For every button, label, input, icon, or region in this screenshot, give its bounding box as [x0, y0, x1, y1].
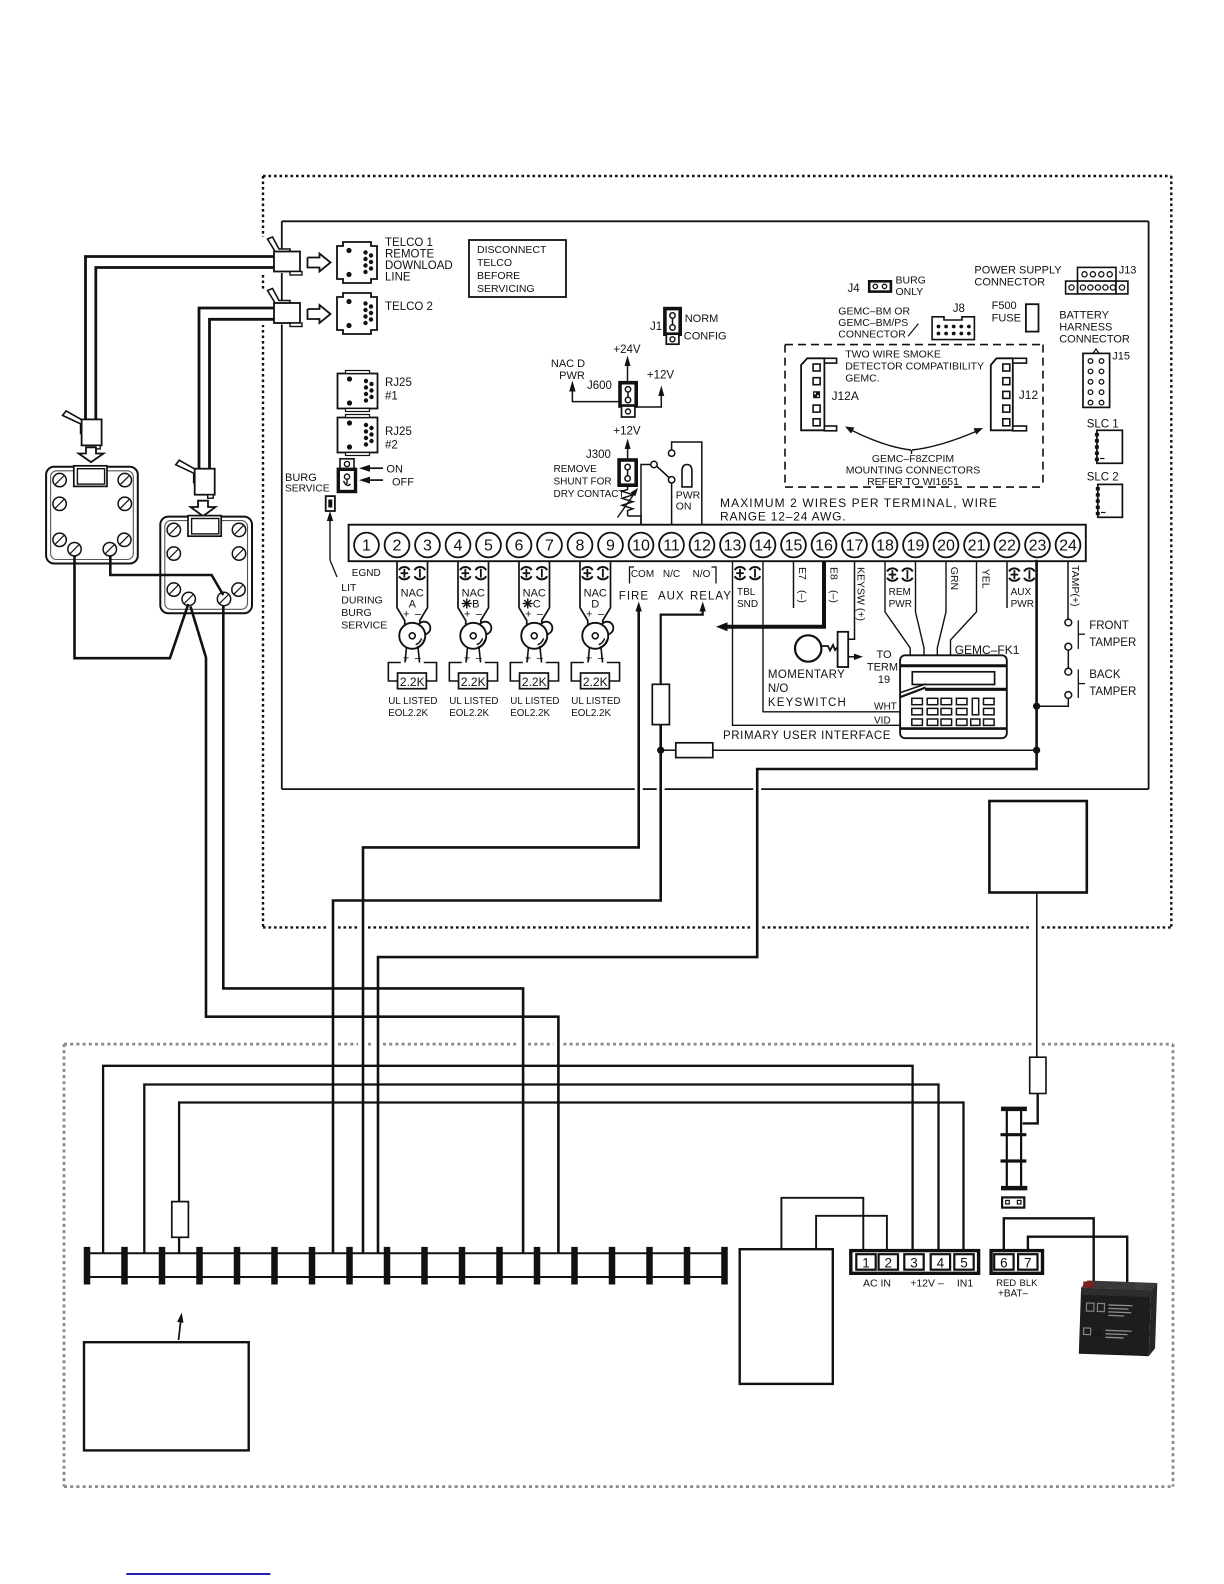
svg-text:J15: J15 [1112, 351, 1130, 363]
svg-text:SERVICE: SERVICE [285, 484, 330, 495]
terminal 23 [1025, 533, 1050, 558]
connector SLC 1 [1097, 430, 1123, 463]
keypad buttons [912, 698, 923, 704]
wire terminal 24 to front tamper [1067, 561, 1069, 619]
terminal 15 [781, 533, 806, 558]
wire terminal 23 long run [378, 561, 1038, 1253]
terminal 22 [995, 533, 1020, 558]
keypad GEMC-FK1 body [900, 655, 1007, 738]
svg-text:5: 5 [960, 1256, 968, 1271]
svg-text:AUX: AUX [658, 591, 685, 603]
wire box to fuse [1036, 893, 1038, 1058]
wire terminal 21 to keypad [951, 561, 977, 655]
arrow through resistor (variable) [618, 491, 637, 518]
svg-text:6: 6 [1000, 1256, 1008, 1271]
connector SLC 2 [1098, 484, 1123, 517]
terminal 3 [415, 533, 440, 558]
connector RJ25 #1 jack [338, 374, 378, 409]
terminal 20 [934, 533, 959, 558]
power strip terminal 13 [534, 1247, 541, 1285]
svg-text:12: 12 [693, 538, 711, 555]
svg-text:+: + [403, 609, 409, 621]
LED PWR ON [682, 465, 692, 487]
dotted enclosure frame (control panel cabinet) [263, 175, 1171, 177]
svg-text:J300: J300 [586, 449, 611, 461]
svg-text:EOL2.2K: EOL2.2K [571, 708, 611, 719]
wire block2 left screw down (telco line) [191, 607, 559, 1254]
svg-text:CONFIG: CONFIG [684, 331, 727, 343]
terminal 9 [598, 533, 623, 558]
back tamper contact 2 [1065, 692, 1072, 699]
power strip terminal 3 [159, 1247, 166, 1285]
terminal 4 [446, 533, 471, 558]
svg-text:GEMC–BM OR: GEMC–BM OR [838, 306, 910, 318]
power input terminal 5 [954, 1254, 973, 1270]
wire terminal 19 to keypad [916, 561, 925, 655]
svg-text:–: – [537, 609, 544, 621]
svg-text:11: 11 [663, 538, 680, 555]
leader arrows to GEMC-F8ZCPIM [851, 430, 911, 450]
svg-text:DRY CONTACT: DRY CONTACT [554, 489, 625, 500]
svg-text:+: + [586, 609, 592, 621]
svg-text:TBL: TBL [737, 587, 756, 598]
terminal strip (24 terminals) [349, 525, 1086, 562]
arrow OFF [370, 479, 383, 481]
fuse F500 [1026, 304, 1039, 331]
arrow into jack block 2 [191, 501, 216, 516]
svg-text:GEMC–F8ZCPIM: GEMC–F8ZCPIM [872, 453, 954, 465]
svg-text:E7: E7 [796, 567, 808, 580]
arrow into TELCO 1 [308, 254, 331, 272]
inline fuse holder [1030, 1057, 1046, 1093]
svg-text:#1: #1 [385, 391, 398, 403]
svg-text:+12V: +12V [613, 426, 641, 438]
svg-text:MAXIMUM 2 WIRES PER TERMINAL,: MAXIMUM 2 WIRES PER TERMINAL, WIRE [720, 496, 998, 510]
svg-text:24: 24 [1059, 538, 1077, 555]
svg-text:N/C: N/C [663, 569, 680, 580]
wire horizontal with resistor [661, 749, 676, 751]
resistor 2.2K EOL B [459, 673, 488, 689]
wire TELCO2 cord 2 [210, 319, 275, 468]
svg-text:NORM: NORM [685, 313, 719, 325]
arrow +12V from J300 [627, 442, 629, 460]
label COM N/C N/O with brackets [630, 567, 635, 584]
svg-text:16: 16 [815, 538, 833, 555]
wire strip to +12V terminal 4 [144, 1085, 938, 1254]
power strip terminal 9 [384, 1247, 391, 1285]
power strip terminal 8 [346, 1247, 353, 1285]
svg-text:AUX: AUX [1011, 587, 1032, 598]
jumper J300 [619, 460, 636, 485]
wire terminal 15 E7 [793, 561, 795, 608]
svg-text:1: 1 [362, 538, 371, 555]
polarity symbols NAC C [521, 567, 532, 570]
terminal 6 [507, 533, 532, 558]
jumper J1 NORM/CONFIG [665, 309, 680, 335]
svg-text:PWR: PWR [889, 599, 912, 610]
svg-text:EGND: EGND [352, 568, 381, 579]
svg-text:GRN: GRN [948, 567, 960, 590]
svg-text:CONNECTOR: CONNECTOR [974, 277, 1045, 289]
leader from LIT to LED [330, 560, 337, 577]
power strip terminal 6 [271, 1247, 278, 1285]
svg-text:EOL2.2K: EOL2.2K [510, 708, 550, 719]
power input terminal 3 [904, 1254, 923, 1270]
svg-text:SLC 1: SLC 1 [1087, 419, 1119, 431]
svg-text:RANGE 12–24 AWG.: RANGE 12–24 AWG. [720, 510, 846, 524]
bell NAC D [601, 622, 614, 635]
svg-text:7: 7 [1024, 1256, 1032, 1271]
RJ31X jack block 2 [160, 517, 252, 614]
NAC C circuit (terminals 6-7) [519, 561, 527, 625]
svg-text:2.2K: 2.2K [522, 675, 547, 689]
terminal 24 [1056, 533, 1081, 558]
terminal 21 [964, 533, 989, 558]
wire TELCO1 cord 2 [96, 268, 274, 420]
wire relay continues [333, 725, 661, 1254]
svg-text:HARNESS: HARNESS [1059, 322, 1112, 334]
svg-text:J4: J4 [848, 283, 861, 295]
wire terminal 6 to battery + [1004, 1218, 1094, 1283]
svg-text:LIT: LIT [341, 582, 357, 594]
dashed box TWO WIRE SMOKE DETECTOR COMPATIBILITY [785, 344, 1043, 346]
terminal block 1-5 [851, 1251, 979, 1274]
svg-text:BATTERY: BATTERY [1059, 310, 1109, 322]
resistor on relay wire [652, 684, 669, 724]
wire back tamper to junction [1037, 698, 1069, 706]
svg-text:EOL2.2K: EOL2.2K [388, 708, 428, 719]
svg-text:IN1: IN1 [957, 1278, 974, 1290]
power input terminal 2 [879, 1254, 898, 1270]
power strip terminal 1 [84, 1247, 91, 1285]
solid frame (control panel PC board) [282, 220, 1149, 222]
svg-text:7: 7 [545, 538, 554, 555]
junction box below panel [989, 801, 1086, 893]
svg-text:EOL2.2K: EOL2.2K [449, 708, 489, 719]
svg-text:ONLY: ONLY [896, 286, 924, 298]
power input terminal 4 [931, 1254, 950, 1270]
connector TELCO 1 jack [337, 242, 377, 283]
svg-text:+: + [525, 609, 531, 621]
svg-text:J8: J8 [953, 303, 965, 315]
wall plug 2 [176, 460, 198, 483]
bell NAC B [479, 622, 492, 635]
wire block1 left screw to block2 [75, 556, 189, 658]
svg-text:PRIMARY USER INTERFACE: PRIMARY USER INTERFACE [723, 730, 891, 742]
svg-text:SLC 2: SLC 2 [1087, 472, 1119, 484]
wire terminal 20 to keypad [937, 561, 946, 655]
power strip terminal 2 [121, 1247, 128, 1285]
wire J600 to +12V [636, 389, 661, 407]
RJ31X jack block 1 [46, 467, 138, 564]
svg-text:BURG: BURG [285, 472, 317, 484]
svg-text:E8: E8 [828, 567, 840, 580]
svg-text:21: 21 [968, 538, 986, 555]
svg-text:BACK: BACK [1089, 669, 1121, 681]
hyperlink underline [126, 1573, 270, 1575]
leader line to J8 [908, 324, 918, 337]
svg-text:BEFORE: BEFORE [477, 270, 520, 282]
bell NAC C [540, 622, 553, 635]
arrow to LED [329, 514, 331, 560]
svg-text:UL LISTED: UL LISTED [449, 696, 498, 707]
arrow +24V from J600 [627, 359, 629, 383]
junction at tamper wire [1033, 703, 1040, 710]
switch lower contact [668, 477, 674, 483]
arrow into TELCO 2 [308, 305, 331, 323]
svg-text:–: – [598, 609, 605, 621]
power strip terminal 14 [571, 1247, 578, 1285]
switch blade [657, 466, 669, 477]
wire terminal 16 E8 thick to relay contacts [725, 561, 824, 627]
svg-text:+: + [464, 609, 470, 621]
keyswitch MOMENTARY N/O [795, 635, 821, 661]
svg-text:BURG: BURG [341, 607, 371, 619]
wire lower contact to terminal 11 [671, 483, 673, 526]
battery terminal 7 [1018, 1254, 1037, 1270]
svg-text:SHUNT FOR: SHUNT FOR [554, 477, 612, 488]
wire resistor to terminal23 line [713, 749, 1037, 751]
svg-text:REMOVE: REMOVE [554, 464, 598, 475]
terminal 2 [385, 533, 410, 558]
resistor 2.2K EOL A [398, 673, 427, 689]
svg-text:N/O: N/O [768, 683, 789, 695]
svg-text:MOUNTING CONNECTORS: MOUNTING CONNECTORS [846, 465, 981, 477]
svg-text:SERVICE: SERVICE [341, 620, 387, 632]
switch BURG SERVICE [340, 459, 354, 470]
svg-text:6: 6 [515, 538, 524, 555]
power strip terminal 15 [609, 1247, 616, 1285]
connector J12A [801, 358, 824, 430]
wire TELCO2 cord [199, 308, 274, 469]
svg-text:YEL: YEL [980, 569, 992, 589]
terminal 12 [690, 533, 715, 558]
connector J15 [1083, 353, 1110, 407]
svg-text:TO: TO [876, 649, 892, 661]
wall plug 1 [63, 411, 85, 434]
svg-text:14: 14 [754, 538, 772, 555]
connector J8 [932, 317, 974, 340]
svg-text:FIRE: FIRE [619, 591, 649, 603]
svg-text:VID: VID [874, 716, 891, 727]
svg-text:3: 3 [423, 538, 432, 555]
svg-text:J1: J1 [650, 321, 662, 333]
svg-text:13: 13 [724, 538, 742, 555]
wire TELCO1 cord [86, 257, 275, 420]
svg-text:2.2K: 2.2K [461, 675, 486, 689]
harness jumper plug [1002, 1197, 1024, 1207]
svg-text:AC IN: AC IN [863, 1278, 891, 1290]
wire terminal 18 to keypad [885, 561, 910, 655]
NAC D circuit (terminals 8-9) [580, 561, 588, 625]
wire terminal 14 to WHT [763, 561, 900, 712]
svg-text:CONNECTOR: CONNECTOR [838, 329, 906, 341]
svg-text:TWO WIRE SMOKE: TWO WIRE SMOKE [845, 349, 941, 361]
svg-text:(–): (–) [796, 590, 808, 603]
svg-text:2.2K: 2.2K [400, 675, 425, 689]
svg-text:3: 3 [910, 1256, 918, 1271]
svg-text:NAC D: NAC D [551, 358, 585, 370]
wire resistor to horizontal run [179, 1103, 963, 1251]
svg-text:DISCONNECT: DISCONNECT [477, 244, 547, 256]
arrow RELAY [700, 602, 706, 612]
svg-text:2: 2 [393, 538, 402, 555]
front tamper contact 1 [1065, 619, 1072, 626]
AC transformer box [740, 1249, 833, 1384]
svg-text:J12A: J12A [832, 389, 859, 403]
svg-text:9: 9 [606, 538, 615, 555]
resistor 2.2K EOL C [520, 673, 549, 689]
dotted enclosure frame (power supply module) [64, 1043, 328, 1046]
svg-text:TAMP(+): TAMP(+) [1069, 565, 1081, 607]
terminal block 6-7 battery [991, 1251, 1042, 1274]
resistor 2.2K EOL D [581, 673, 610, 689]
terminal 5 [476, 533, 501, 558]
LED lit during burg service [326, 496, 335, 511]
terminal 7 [537, 533, 562, 558]
wire NAC D PWR to J600 [572, 390, 620, 402]
svg-text:TELCO 1: TELCO 1 [385, 237, 433, 249]
svg-text:GEMC–BM/PS: GEMC–BM/PS [838, 317, 908, 329]
terminal 18 [873, 533, 898, 558]
svg-text:TERM.: TERM. [867, 662, 901, 674]
keypad display [912, 672, 994, 685]
svg-text:TAMPER: TAMPER [1089, 686, 1136, 698]
front tamper contact 2 [1065, 643, 1072, 650]
terminal 11 [659, 533, 684, 558]
svg-text:20: 20 [937, 538, 955, 555]
jumper J600 [620, 383, 636, 406]
resistor on IN1 wire [172, 1202, 189, 1238]
power strip terminal 11 [459, 1247, 466, 1285]
terminal 16 [812, 533, 837, 558]
terminal 19 [903, 533, 928, 558]
power input terminal 1 [856, 1254, 875, 1270]
svg-text:23: 23 [1029, 538, 1047, 555]
svg-text:FUSE: FUSE [992, 313, 1021, 325]
svg-text:19: 19 [907, 538, 925, 555]
svg-text:1: 1 [862, 1256, 870, 1271]
svg-text:RELAY: RELAY [690, 591, 732, 603]
polarity REM PWR [887, 568, 898, 571]
battery 12V (photo) [1079, 1280, 1158, 1356]
wire box to AC IN 2 [816, 1216, 887, 1251]
svg-text:UL LISTED: UL LISTED [571, 696, 620, 707]
battery harness connector stack [1006, 1109, 1008, 1188]
svg-text:2: 2 [885, 1256, 893, 1271]
EOL plate A [388, 663, 436, 682]
svg-text:#2: #2 [385, 440, 398, 452]
back tamper contact 1 [1065, 668, 1072, 675]
keypad stripe [901, 688, 926, 698]
bell NAC A [418, 622, 431, 635]
power strip terminal 17 [684, 1247, 691, 1285]
svg-text:REMOTE: REMOTE [385, 249, 435, 261]
svg-text:COM: COM [631, 569, 654, 580]
svg-text:SND: SND [737, 599, 758, 610]
svg-text:CONNECTOR: CONNECTOR [1059, 334, 1130, 346]
svg-text:BURG: BURG [896, 275, 926, 287]
junction on relay wire [657, 747, 664, 754]
wire strip to IN1 via resistor [178, 1237, 180, 1253]
wire upper contact to terminal 12 [672, 442, 702, 526]
resistor (shunt) below J300 [622, 485, 633, 516]
keypad bottom rule [900, 727, 1007, 730]
NAC A circuit (terminals 2-3) [397, 561, 405, 625]
resistor horizontal [676, 743, 713, 758]
terminal 14 [751, 533, 776, 558]
svg-text:18: 18 [876, 538, 894, 555]
bracket front tamper [1077, 620, 1079, 649]
terminal 17 [842, 533, 867, 558]
svg-text:J12: J12 [1019, 388, 1039, 402]
svg-text:ON: ON [676, 501, 692, 513]
svg-text:GEMC.: GEMC. [845, 373, 879, 385]
switch PWR ON pivot [651, 461, 657, 467]
svg-text:TAMPER: TAMPER [1089, 637, 1136, 649]
svg-text:PWR: PWR [1011, 599, 1034, 610]
svg-text:TELCO 2: TELCO 2 [385, 301, 433, 313]
wire terminal 13 to VID [733, 561, 901, 725]
svg-text:OFF: OFF [392, 477, 414, 489]
arrow ON [370, 467, 383, 469]
wire terminal 22 AUX PWR stub [1006, 561, 1008, 608]
wire between tampers [1067, 650, 1069, 668]
svg-text:+12V: +12V [647, 370, 675, 382]
connector RJ25 #2 jack [338, 418, 378, 453]
EOL plate C [510, 663, 558, 682]
wire block2 right screw down (telco line) [223, 605, 523, 1253]
svg-text:SERVICING: SERVICING [477, 283, 535, 295]
svg-text:F500: F500 [992, 300, 1017, 312]
svg-text:RJ25: RJ25 [385, 426, 412, 438]
power strip terminal 16 [646, 1247, 653, 1285]
arrow FIRE [636, 602, 642, 612]
power strip terminal 12 [496, 1247, 503, 1285]
svg-text:N/O: N/O [693, 569, 711, 580]
arrow from box to strip [179, 1316, 182, 1340]
svg-text:4: 4 [937, 1256, 945, 1271]
NAC B circuit (terminals 4-5) [458, 561, 466, 625]
svg-text:UL LISTED: UL LISTED [388, 696, 437, 707]
svg-text:(–): (–) [828, 590, 840, 603]
TELCO 2 line cord plug [268, 289, 291, 305]
svg-text:15: 15 [785, 538, 803, 555]
svg-text:4: 4 [454, 538, 463, 555]
label TBL SND polarity [735, 567, 746, 570]
svg-text:TELCO: TELCO [477, 257, 512, 269]
svg-text:2.2K: 2.2K [583, 675, 608, 689]
terminal 10 [629, 533, 654, 558]
wire strip to +12V terminal 3 [103, 1066, 913, 1254]
note box DISCONNECT TELCO BEFORE SERVICING [469, 240, 566, 297]
wire switch pivot to terminal 10 [641, 465, 651, 527]
switch upper contact [668, 450, 674, 456]
svg-text:PWR: PWR [559, 370, 585, 382]
power strip terminal 4 [196, 1247, 203, 1285]
svg-text:LINE: LINE [385, 272, 411, 284]
svg-text:19: 19 [878, 674, 890, 686]
polarity symbols NAC B [460, 567, 471, 570]
svg-text:KEYSWITCH: KEYSWITCH [768, 697, 847, 709]
svg-text:UL LISTED: UL LISTED [510, 696, 559, 707]
svg-text:–: – [476, 609, 483, 621]
svg-text:22: 22 [998, 538, 1016, 555]
wire FIRE output [363, 610, 639, 1253]
wire J300/resistor to terminal 10 [628, 516, 641, 526]
svg-text:DOWNLOAD: DOWNLOAD [385, 260, 453, 272]
power terminal strip [86, 1252, 725, 1254]
